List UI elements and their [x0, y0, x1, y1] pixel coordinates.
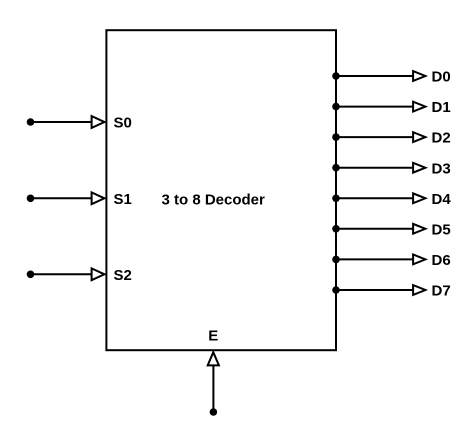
node S2 input dot	[27, 271, 35, 279]
arrowhead D4	[413, 193, 425, 203]
wire D7	[336, 289, 414, 291]
arrowhead E (enable input, points up into block)	[208, 352, 219, 365]
wire D5	[336, 228, 414, 230]
svg-text:D3: D3	[432, 160, 451, 177]
node D4 dot	[332, 195, 340, 203]
arrowhead D1	[413, 102, 425, 112]
node D6 dot	[332, 256, 340, 264]
node D0 dot	[332, 72, 340, 80]
node E input dot	[210, 408, 218, 416]
wire S0	[31, 121, 93, 123]
arrowhead D7	[413, 285, 425, 295]
arrowhead D6	[413, 255, 425, 265]
wire D1	[336, 106, 414, 108]
node D7 dot	[332, 286, 340, 294]
node D3 dot	[332, 164, 340, 172]
node D2 dot	[332, 133, 340, 141]
svg-text:S0: S0	[114, 115, 132, 132]
svg-text:D0: D0	[432, 69, 451, 86]
wire D2	[336, 136, 414, 138]
wire D6	[336, 258, 414, 260]
svg-text:D1: D1	[432, 99, 451, 116]
node D5 dot	[332, 225, 340, 233]
wire E	[212, 366, 214, 411]
arrowhead S1	[92, 192, 105, 204]
node S1 input dot	[27, 195, 35, 203]
wire D3	[336, 167, 414, 169]
node S0 input dot	[27, 118, 35, 126]
svg-text:D5: D5	[432, 221, 451, 238]
wire D4	[336, 197, 414, 199]
svg-text:D2: D2	[432, 130, 451, 147]
node D1 dot	[332, 103, 340, 111]
arrowhead S0	[92, 116, 105, 128]
svg-text:D6: D6	[432, 252, 451, 269]
wire S2	[31, 273, 93, 275]
svg-text:S2: S2	[114, 267, 132, 284]
svg-text:E: E	[208, 327, 218, 344]
svg-text:3 to 8 Decoder: 3 to 8 Decoder	[162, 191, 266, 208]
svg-text:S1: S1	[114, 191, 132, 208]
arrowhead D0	[413, 71, 425, 81]
wire S1	[31, 197, 93, 199]
svg-text:D4: D4	[432, 191, 452, 208]
decoder block U1	[106, 30, 336, 350]
arrowhead S2	[92, 268, 105, 280]
wire D0	[336, 75, 414, 77]
svg-text:D7: D7	[432, 283, 451, 300]
arrowhead D3	[413, 163, 425, 173]
arrowhead D5	[413, 224, 425, 234]
arrowhead D2	[413, 132, 425, 142]
